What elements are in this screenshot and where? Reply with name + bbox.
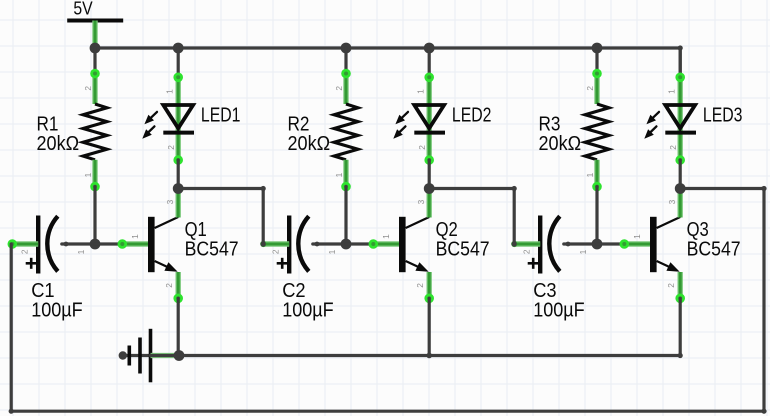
corner Q1-C2 at C2 [261,241,266,246]
svg-text:20kΩ: 20kΩ [288,133,331,155]
svg-text:2: 2 [585,86,595,91]
svg-text:100µF: 100µF [282,300,334,322]
node base Q1 [90,239,101,250]
wire base node to Q3 [597,242,624,245]
svg-text:2: 2 [666,283,676,288]
LED3 light arrow upper [646,112,659,124]
transistor Q1 pin 3 leg collector [175,193,180,218]
wire C3 to base node [564,242,597,245]
LED3 pin 1 leg anode [678,77,683,128]
capacitor C3 plate negative [538,216,542,274]
wire bus to R3 [595,48,598,74]
LED3 light arrow lower [644,126,656,138]
svg-text:1: 1 [76,249,86,254]
svg-text:BC547: BC547 [687,239,741,261]
power symbol 5V [67,19,123,23]
svg-text:1: 1 [334,172,344,177]
svg-text:2: 2 [415,283,425,288]
LED1 light arrow lower [142,126,154,138]
capacitor C1 plus mark [26,258,37,269]
resistor R3 pin 2 leg [594,74,599,105]
resistor R2 pin 1 leg [343,160,348,187]
wire Q1 emitter to ground [177,298,180,355]
junction top bus at LED1 [173,43,184,54]
pin tip Q2.2 [426,295,433,302]
pin tip LED1.1 [175,74,182,81]
wire Q3 collector to right rail [680,187,764,190]
junction top bus at R2 [341,43,352,54]
pin tip LED1.2 [175,157,182,164]
LED2 triangle [414,105,444,128]
corner Q2-C3 at C3 [512,241,517,246]
corner right rail top [761,186,766,191]
transistor Q2 collector stroke [406,217,430,228]
corner ground bus right [678,353,683,358]
transistor Q2 pin 2 leg emitter [427,272,432,298]
pin tip Q1.2 [175,295,182,302]
LED3 triangle [665,105,695,128]
wire Q2 emitter to ground bus [428,298,431,355]
pin tip R1.1 [92,183,99,190]
svg-text:LED2: LED2 [452,104,492,126]
transistor Q3 pin 3 leg collector [678,193,683,218]
wire bus to R1 [93,48,96,74]
svg-text:1: 1 [585,172,595,177]
junction top bus at LED2 [424,43,435,54]
pin tip LED2.1 [426,74,433,81]
capacitor C1 plate positive curved [47,216,58,271]
LED1 cathode bar [163,131,194,135]
LED1 triangle [163,105,193,128]
corner Q2-C3 bend [512,186,517,191]
wire LED2 to collector node [428,160,431,189]
svg-text:100µF: 100µF [533,300,585,322]
transistor Q1 pin 1 leg base [122,241,150,246]
corner Q1-C2 bend [261,186,266,191]
resistor R2 body [334,104,358,160]
wire Q2 collector to C3 [429,189,514,245]
capacitor C2 plate positive curved [298,216,309,271]
transistor Q1 pin 2 leg emitter [175,272,180,298]
wire bus to LED2 [428,48,431,77]
svg-text:1: 1 [667,89,677,94]
LED3 cathode bar [665,131,696,135]
svg-text:2: 2 [522,249,532,254]
pin tip LED3.2 [677,157,684,164]
svg-text:2: 2 [83,86,93,91]
wire R1 to base node [93,187,96,244]
wire left feedback rail to C1 [10,244,13,411]
svg-text:LED1: LED1 [201,104,241,126]
corner bottom right [761,409,766,414]
svg-text:BC547: BC547 [436,239,490,261]
wire C2 to base node [313,242,346,245]
svg-text:20kΩ: 20kΩ [539,133,582,155]
svg-text:2: 2 [20,249,30,254]
capacitor C2 pin 2 leg [263,241,289,246]
corner top bus at LED3 [678,45,683,50]
svg-text:1: 1 [381,234,391,239]
LED2 light arrow lower [393,126,405,138]
svg-text:LED3: LED3 [703,104,743,126]
wire R3 to base node [595,187,598,244]
svg-text:2: 2 [417,145,427,150]
pin tip C1.2 [9,241,16,248]
svg-text:BC547: BC547 [185,239,239,261]
svg-text:1: 1 [578,249,588,254]
pin tip R3.2 [594,70,601,77]
svg-text:2: 2 [668,145,678,150]
svg-text:2: 2 [164,283,174,288]
transistor Q3 pin 1 leg base [624,241,652,246]
capacitor C1 pin 2 leg [12,241,38,246]
wire Q3 emitter to ground bus [679,298,682,355]
resistor R2 pin 2 leg [343,74,348,105]
pin end C1.1 [64,242,69,247]
transistor Q2 pin 1 leg base [373,241,401,246]
wire Q1 collector to C2 [178,189,263,245]
corner bottom left [9,409,14,414]
resistor R3 pin 1 leg [594,160,599,187]
LED2 pin 1 leg anode [427,77,432,128]
resistor R1 pin 2 leg [92,74,97,105]
node collector Q2 [424,183,435,194]
pin end C2.1 [315,242,320,247]
pin tip R2.2 [343,70,350,77]
svg-text:1: 1 [130,234,140,239]
svg-text:3: 3 [667,199,677,204]
LED1 light arrow upper [144,112,157,124]
capacitor C3 plate positive curved [549,216,560,271]
pin tip Q2.1 [370,241,377,248]
svg-text:3: 3 [165,199,175,204]
pin end C3.1 [566,242,571,247]
ground pin leg [151,353,180,358]
svg-text:2: 2 [166,145,176,150]
pin tip R1.2 [92,70,99,77]
LED3 pin 2 leg cathode [678,128,683,160]
wire bus to LED1 [177,48,180,77]
transistor Q3 pin 2 leg emitter [678,272,683,298]
wire LED1 to collector node [177,160,180,189]
pin tip Q3.2 [677,295,684,302]
node collector Q3 [675,183,686,194]
LED2 cathode bar [414,131,445,135]
svg-text:2: 2 [334,86,344,91]
svg-text:1: 1 [327,249,337,254]
junction 5V at R1 [90,43,101,54]
capacitor C2 plate negative [287,216,291,274]
svg-text:2: 2 [271,249,281,254]
node base Q2 [341,239,352,250]
LED1 pin 1 leg anode [175,77,180,128]
wire ground bus [179,354,680,357]
node collector Q1 [173,183,184,194]
transistor Q1 collector stroke [155,217,179,228]
wire base node to Q1 [95,242,122,245]
wire bus to R2 [344,48,347,74]
resistor R1 pin 1 leg [92,160,97,187]
wire bottom feedback bus [11,410,764,413]
wire top bus corner to LED3 [679,48,682,77]
junction top bus at R3 [592,43,603,54]
pin tip R3.1 [594,183,601,190]
pin tip LED3.1 [677,74,684,81]
wire right feedback rail [762,189,765,412]
resistor R1 body [83,104,107,160]
node base Q3 [592,239,603,250]
ground symbol [123,329,179,383]
pin tip Q1.1 [119,241,126,248]
transistor Q1 emitter stroke [155,261,178,272]
capacitor C1 plate negative [36,216,40,274]
pin tip R2.1 [343,183,350,190]
svg-text:1: 1 [165,89,175,94]
resistor R3 body [585,104,609,160]
transistor Q2 emitter stroke [406,261,429,272]
svg-text:3: 3 [416,199,426,204]
transistor Q2 pin 3 leg collector [427,193,432,218]
LED2 light arrow upper [395,112,408,124]
pin tip LED2.2 [426,157,433,164]
transistor Q1 base bar [148,217,155,272]
junction Q2 emitter ground [426,353,432,359]
pin tip Q3.1 [621,241,628,248]
transistor Q3 collector stroke [657,217,681,228]
transistor Q3 base bar [650,217,657,272]
ground terminal dot [119,351,127,359]
svg-text:1: 1 [632,234,642,239]
wire LED3 to collector node [679,160,682,189]
svg-text:5V: 5V [73,0,92,19]
wire top bus 5V rail [95,46,680,49]
power 5V pin leg [92,21,97,49]
capacitor C3 pin 2 leg [514,241,540,246]
node ground junction [174,350,185,361]
svg-text:1: 1 [83,172,93,177]
pin tip C3.2 [511,241,517,247]
transistor Q2 base bar [399,217,406,272]
wire bus to LED3 [679,48,682,77]
wire R2 to base node [344,187,347,244]
svg-text:20kΩ: 20kΩ [37,133,80,155]
wire C1 to base node [62,242,95,245]
wire base node to Q2 [346,242,373,245]
capacitor C3 plus mark [528,258,539,269]
pin tip C2.2 [260,241,266,247]
LED1 pin 2 leg cathode [175,128,180,160]
LED2 pin 2 leg cathode [427,128,432,160]
svg-text:1: 1 [416,89,426,94]
capacitor C2 plus mark [277,258,288,269]
transistor Q3 emitter stroke [657,261,680,272]
svg-text:100µF: 100µF [31,300,82,322]
